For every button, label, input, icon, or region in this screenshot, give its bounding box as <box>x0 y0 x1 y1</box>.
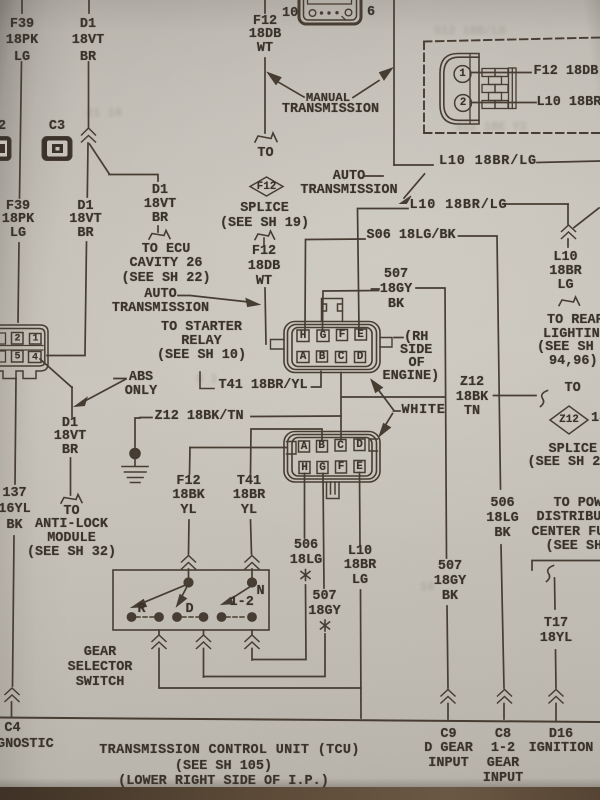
connector symbol at left page edge (cut off) <box>0 137 11 161</box>
wire F12 lower segment to connector tab <box>265 288 266 344</box>
label C4 <box>4 722 20 737</box>
label 18 (clipped at page edge) <box>591 412 600 427</box>
note SPLICE (SEE SH 19) <box>220 201 309 231</box>
wire ABS branch diagonal from cavity 4 <box>40 359 72 388</box>
dashed component box (manual trans. connector detail) <box>424 38 600 134</box>
wire R contact down from switch <box>158 630 160 635</box>
label F12 18BK YL <box>172 475 204 519</box>
connector break chevron on R wire below switch <box>152 635 166 649</box>
(RH SIDE OF ENGINE) dash <box>394 337 403 339</box>
ABS ONLY leader line <box>84 379 126 402</box>
half-connector L symbol before T41 label <box>200 372 214 389</box>
label D1 18VT BR (ABS branch) <box>54 417 86 458</box>
wire S06/C8 lower segment <box>501 545 504 688</box>
wire L10 corner to label <box>394 164 433 166</box>
faint bleed-through ghost text from reverse side <box>434 24 506 38</box>
connector break chevron on 137 wire <box>5 688 19 702</box>
label GEAR SELECTOR SWITCH <box>68 645 133 690</box>
label T17 18YL <box>540 616 572 647</box>
splice Z12 diamond <box>550 406 588 434</box>
label D (switch position) <box>186 603 194 618</box>
ground symbol <box>122 458 148 483</box>
keyway under lower connector <box>327 482 340 499</box>
label 507 18GY BK (bottom column) <box>434 559 466 605</box>
label WHITE <box>402 404 446 419</box>
connector body inside dashed box (2-pin D-shell) <box>440 54 479 125</box>
wire F12 upper segment <box>264 58 266 133</box>
label (SEE SH 105) <box>175 760 272 775</box>
WHITE label dash <box>394 410 401 412</box>
connector break chevron on D16 wire <box>549 690 563 704</box>
label DIAGNOSTIC (clipped) <box>0 738 54 753</box>
wire 137 from connector <box>15 378 16 484</box>
label 2 (left edge connector) <box>0 120 6 135</box>
connector break chevron on F12 wire above switch <box>182 556 196 570</box>
wire D1 branch to ECU (diagonal + horizontal + stub) <box>90 144 159 181</box>
note TO ECU CAVITY 26 (SEE SH 22) <box>121 243 210 287</box>
AUTO TRANSMISSION diagonal leader + arrowhead <box>404 174 425 198</box>
switch wiper arrow to 1-2 <box>230 587 250 600</box>
pin boxes lower connector row ABCD <box>299 439 366 452</box>
wire L10 from pin E down <box>359 473 362 546</box>
wire 507 label right dash + vertical to C9 <box>416 288 447 558</box>
wire 507/C9 lower segment <box>447 606 448 688</box>
splice F12 diamond <box>250 177 283 196</box>
pin circle 1 <box>454 66 471 83</box>
wire Z12 horizontal to splice (right of label) <box>494 395 537 397</box>
connector at top (10/6 plug) <box>299 0 361 24</box>
label 506 18LG (pin H wire) <box>290 538 322 569</box>
half-connector hook on T17 feed <box>547 566 554 582</box>
wire F12 corner down <box>189 448 192 475</box>
wire ABS branch lower vertical <box>70 458 72 495</box>
connector break chevron on T41 wire above switch <box>245 556 259 570</box>
lower engine connector (8-way) <box>284 432 380 483</box>
bottom dark table edge <box>0 787 600 800</box>
wire 507 from pin G down <box>323 474 324 589</box>
wire N contact down from switch <box>251 630 253 635</box>
wire C8 stub to TCU <box>503 704 505 720</box>
wire S06 line right segment and vertical to C8 <box>459 236 501 489</box>
wire S06 line from label to pin H <box>305 239 365 329</box>
wire 507 below label to D contact corner <box>204 634 326 677</box>
note MANUAL TRANSMISSION <box>306 91 350 106</box>
wire F39 upper segment <box>20 62 22 198</box>
MANUAL TRANSMISSION leader left + arrowhead <box>279 83 304 98</box>
wire L10 below label down to TCU <box>360 590 363 718</box>
label (LOWER RIGHT SIDE OF I.P.) <box>118 775 329 790</box>
wire from pin 2 to L10 label <box>472 102 537 104</box>
AUTO TRANSMISSION (left) leader + arrowhead to F12 wire <box>178 296 249 303</box>
label 1-2 (switch position) <box>230 596 254 611</box>
dashed links between fixed contacts <box>136 616 247 618</box>
wire L10 second line left corner down to pin E <box>358 209 409 330</box>
ground corner wire <box>135 418 140 447</box>
terminal detail bricks <box>482 68 516 109</box>
wire D1 lower segment <box>85 242 87 354</box>
label C9 D GEAR INPUT <box>424 728 473 772</box>
label F12 18DB WT (above engine connector) <box>248 244 280 290</box>
label L10 18BR LG (right column) <box>549 251 581 294</box>
wire T17 upper segment <box>554 578 557 609</box>
label T41 18BR/YL <box>219 379 308 394</box>
ABS ONLY arrowhead <box>75 398 88 407</box>
label ABS ONLY <box>125 371 157 399</box>
wire Z12 label line to ground corner <box>140 416 341 418</box>
label L10 18BR/LG (second) <box>410 199 508 214</box>
wire C9 stub to TCU <box>447 704 449 720</box>
wire F12 top stub <box>264 0 266 13</box>
keyway on top of upper connector <box>322 299 343 322</box>
pin boxes upper connector row HGFE <box>297 329 367 342</box>
asterisk splice mark on 507 18GY wire <box>321 620 330 631</box>
label F12 inside splice diamond <box>257 181 277 193</box>
upper engine connector (8-way, RH side of engine) <box>271 322 393 373</box>
wire F12 below label <box>188 520 191 554</box>
label C3 <box>49 120 65 135</box>
label F12 18DB (dashed box pin 1) <box>534 65 600 80</box>
label D1 18VT BR (main wire) <box>69 200 101 241</box>
ground junction dot <box>130 448 141 459</box>
wire T17 below label <box>555 650 558 688</box>
label D1 18VT BR (top) <box>72 17 104 67</box>
note TO STARTER RELAY (SEE SH 10) <box>157 321 246 363</box>
wire F12 into pin A (from left) <box>190 447 286 449</box>
wire T17 feed line from power distribution <box>532 561 600 571</box>
wire 137 lower segment <box>13 536 15 686</box>
connector break chevron on D1 wire <box>82 128 96 142</box>
half-connector symbol at anti-lock branch end <box>61 495 82 504</box>
label S06 18LG/BK <box>367 229 456 244</box>
half-connector symbol below splice note <box>255 231 275 246</box>
label 6 (connector cavity count) <box>367 6 375 21</box>
label 506 18LG BK (right column) <box>486 496 518 542</box>
label D1 18VT BR (ECU branch) <box>144 184 176 227</box>
note TO POWER DISTRIBUTION CENTER FUSE <box>554 497 600 512</box>
wire N contact stub <box>251 649 253 661</box>
wire from pin 1 to F12 label <box>471 72 531 74</box>
wire F39 lower segment into connector <box>18 243 19 322</box>
label Z12 18BK/TN <box>155 410 244 425</box>
connector C1 (left 6-cavity connector, cut off at page edge) <box>0 325 48 379</box>
wire D1 mid segment <box>86 143 89 197</box>
wire T41 below label <box>251 520 252 554</box>
diagonal wire from page edge to L10 chevron <box>574 208 599 228</box>
label 137 16YL BK <box>0 486 31 535</box>
wire T41 into switch box <box>251 569 253 583</box>
half-connector hook before TO (Z12 splice) <box>541 391 548 407</box>
wire L10 first line right segment to page edge <box>537 161 600 163</box>
wire F39 top stub <box>21 0 23 13</box>
wire 506 below label to N contact corner <box>253 585 307 660</box>
label L10 18BR (dashed box pin 2) <box>537 96 600 111</box>
note TO REAR LIGHTING (SEE SH 92, 94,96) <box>547 314 600 329</box>
note SPLICE (SEE SH 2..) right <box>549 443 598 458</box>
pin letters upper connector <box>300 330 307 342</box>
half-connector symbol at F12 wire end <box>255 133 277 142</box>
label D16 IGNITION <box>529 728 594 758</box>
TCU boundary line <box>0 718 600 723</box>
wire D1 branch stub below label <box>157 226 159 232</box>
wire L10 second line right segment <box>503 203 568 205</box>
wire L10 corner down at right <box>567 204 569 224</box>
wire D16 stub to TCU <box>555 704 557 721</box>
note (RH SIDE OF ENGINE) <box>404 331 428 346</box>
label F39 18PK LG (second) <box>2 200 34 241</box>
wire 137 stub to TCU <box>11 702 13 717</box>
label L10 18BR/LG (first) <box>439 155 537 170</box>
wire D1 upper segment <box>88 62 90 127</box>
switch common contact dot 2 <box>247 578 256 587</box>
wire D contact stub <box>203 649 205 678</box>
wire R contact down and right to L10 junction <box>159 649 361 689</box>
MANUAL TRANSMISSION leader right + arrowhead <box>353 81 379 98</box>
wire 507 label left dash to pin G <box>323 289 380 329</box>
pin boxes lower connector row HGFE <box>299 461 365 474</box>
label 507 18GY (pin G wire) <box>308 589 340 620</box>
label F39 18PK LG (top) <box>6 17 38 67</box>
wire D contact down from switch <box>203 630 205 635</box>
label C8 1-2 GEAR INPUT <box>483 728 524 787</box>
connector break chevron on N wire below switch <box>245 635 259 649</box>
wire D1 into cavity 4 <box>47 355 85 357</box>
label TRANSMISSION CONTROL UNIT (TCU) <box>99 744 359 759</box>
label Z12 inside splice diamond <box>559 414 579 426</box>
wire L10 stub below chevron <box>567 239 569 247</box>
label TO (Z12 splice) <box>565 382 581 397</box>
wire T41 from pin B (up and left) <box>251 429 323 474</box>
label F12 18DB WT (top) <box>249 15 281 56</box>
wire from top to L10 label (vertical at x394) <box>393 0 395 165</box>
connector break chevron on D wire below switch <box>197 635 211 649</box>
label T41 18BR YL <box>233 475 265 519</box>
half-connector symbol under L10 18BR LG <box>559 297 580 306</box>
T41 label dash and corner up to pin B <box>312 372 322 388</box>
pin circle 2 <box>455 95 472 112</box>
connector break chevron on L10 right wire <box>562 225 576 239</box>
WHITE leader down + arrowhead <box>386 414 393 426</box>
label TO (below F12 wire end) <box>257 147 273 162</box>
switch common contact dot 1 <box>184 578 193 587</box>
label R (switch position) <box>138 603 146 618</box>
label 507 18GY BK (upper) <box>380 267 412 312</box>
switch fixed contacts row <box>127 613 256 622</box>
pin number 1 <box>459 68 466 80</box>
wire F12 into switch box <box>188 569 190 583</box>
pin boxes upper connector row ABCD <box>297 351 366 363</box>
note TO ANTI-LOCK MODULE (SEE SH 32) <box>27 505 116 560</box>
label N (switch position) <box>257 585 265 600</box>
wire Z12 horizontal to splice (left of label) <box>342 396 446 398</box>
pin numbers C1 connector <box>14 333 20 344</box>
gear selector switch box <box>113 570 269 630</box>
pin number 2 <box>460 97 467 109</box>
WHITE leader up + arrowhead <box>377 388 394 410</box>
asterisk splice mark on 506 18LG wire <box>301 570 310 581</box>
AUTO TRANSMISSION (upper) leader dash <box>364 175 383 177</box>
pin letters lower connector <box>301 441 308 453</box>
wire ABS branch vertical <box>71 387 73 417</box>
connector break chevron on C9 wire <box>441 690 455 704</box>
note AUTO TRANSMISSION (left) <box>112 288 209 317</box>
switch wiper arrow to R <box>140 586 185 605</box>
half-connector symbol at D1 ECU branch end <box>149 231 170 240</box>
note AUTO TRANSMISSION (upper) <box>300 170 397 198</box>
connector C3 symbol <box>42 137 72 161</box>
wire D1 top stub <box>88 0 90 13</box>
label 10 (connector cavity count) <box>282 7 298 22</box>
label Z12 18BK TN (center) <box>456 376 488 420</box>
switch wiper arrow to D <box>181 588 187 599</box>
connector break chevron on C8 wire <box>498 690 512 704</box>
wire Z12 vertical (upper C to lower C) <box>340 373 342 440</box>
wire 506 from pin H down <box>304 474 306 539</box>
label L10 18BR LG (pin E wire) <box>344 545 376 589</box>
